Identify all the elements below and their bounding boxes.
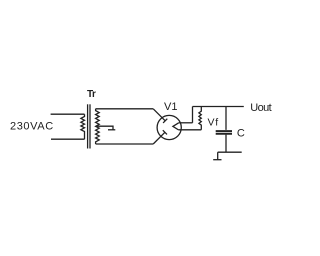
svg-text:Tr: Tr xyxy=(87,89,96,100)
capacitor C bottom plate xyxy=(216,133,232,135)
anode plate 1 of V1 xyxy=(163,119,167,123)
tube V1 envelope xyxy=(157,115,181,139)
svg-text:C: C xyxy=(237,127,245,139)
wire capacitor node drop xyxy=(225,107,227,130)
svg-text:V1: V1 xyxy=(164,101,177,113)
ground bar xyxy=(213,159,221,161)
transformer Tr secondary winding xyxy=(96,109,100,144)
transformer Tr core line 1 xyxy=(87,104,89,148)
wire anode 1 diagonal xyxy=(153,109,165,121)
svg-text:230VAC: 230VAC xyxy=(10,120,54,132)
wire filament top lead xyxy=(179,122,193,124)
filament winding Vf xyxy=(199,107,201,130)
wire ground vertical xyxy=(217,152,219,160)
svg-text:Uout: Uout xyxy=(250,102,271,114)
transformer Tr primary winding xyxy=(81,114,85,139)
wire vertical to output rail xyxy=(192,107,194,123)
wire filament bottom lead xyxy=(179,129,202,131)
wire anode 2 diagonal xyxy=(153,132,165,144)
ground at center tap xyxy=(108,129,115,131)
wire primary top lead xyxy=(51,113,85,115)
wire capacitor to ground xyxy=(225,135,227,153)
svg-text:Vf: Vf xyxy=(208,117,219,129)
capacitor C top plate xyxy=(216,130,232,132)
wire ground horizontal xyxy=(218,151,242,153)
wire secondary center tap xyxy=(97,126,114,129)
wire secondary top lead xyxy=(96,108,154,110)
wire secondary bottom lead xyxy=(96,143,154,145)
transformer Tr core line 2 xyxy=(89,104,91,148)
anode plate 2 of V1 xyxy=(163,130,167,134)
wire primary bottom lead xyxy=(51,138,85,140)
wire output rail xyxy=(193,106,244,108)
filament of V1 xyxy=(173,123,179,130)
